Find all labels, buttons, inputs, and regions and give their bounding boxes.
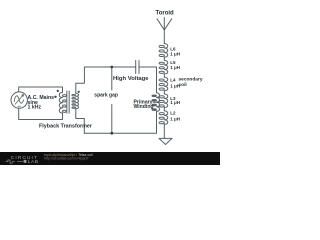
svg-text:spark gap: spark gap	[94, 93, 118, 99]
wire left-loop top	[19, 87, 63, 92]
wire L5-L4	[163, 74, 165, 77]
svg-text:High Voltage: High Voltage	[113, 76, 149, 82]
inductor L2 coil	[164, 111, 167, 125]
antenna / toroid symbol	[157, 18, 172, 31]
ground symbol	[159, 138, 172, 144]
svg-text:L2: L2	[170, 111, 176, 116]
watermark bar	[0, 152, 220, 165]
capacitor C1 left plate	[135, 61, 137, 74]
wire cap to right corner, down to primary	[139, 67, 157, 93]
CircuitLab logo block	[24, 160, 27, 163]
svg-text:1 μH: 1 μH	[170, 100, 180, 105]
wire L3-L2	[163, 108, 165, 111]
capacitor C1 right plate	[138, 61, 140, 74]
inductor L6 coil	[164, 44, 167, 58]
transformer T1 right winding	[76, 93, 79, 108]
transformer T1 core	[67, 91, 70, 114]
voltage source V1	[11, 92, 27, 108]
node junction dot bottom rail	[110, 132, 113, 135]
svg-text:Toroid: Toroid	[156, 11, 175, 17]
CircuitLab logo waveform	[5, 160, 23, 163]
svg-text:1 μH: 1 μH	[170, 116, 180, 121]
wire bottom rail	[84, 111, 156, 133]
primary winding L1 coil	[157, 93, 160, 111]
wire xfmr right-top staircase to HV line	[76, 67, 136, 93]
label pointer dot A.C. Mains	[54, 96, 56, 98]
label pointer primary winding	[153, 101, 159, 103]
spark gap lower electrode	[111, 105, 113, 134]
wire L4-L3	[163, 91, 165, 94]
wire antenna stem	[163, 30, 165, 44]
svg-text:1 μH: 1 μH	[170, 52, 180, 57]
node junction dot HV	[110, 66, 113, 69]
phase dot left winding	[57, 90, 59, 92]
wire L6-L5	[163, 57, 165, 60]
wire xfmr right-bottom staircase	[76, 109, 85, 134]
wire left-loop bottom	[19, 109, 63, 120]
transformer T1 left winding	[59, 92, 62, 113]
svg-text:Winding: Winding	[134, 104, 154, 110]
spark gap upper electrode	[111, 67, 113, 90]
svg-text:http://circuitlab.com/c/4pqx2f: http://circuitlab.com/c/4pqx2f	[44, 157, 88, 161]
svg-text:LAB: LAB	[28, 159, 39, 165]
svg-text:1 μH: 1 μH	[170, 65, 180, 70]
svg-text:L4: L4	[170, 78, 176, 83]
inductor L3 coil	[164, 94, 167, 108]
inductor L4 coil	[164, 77, 167, 91]
svg-text:1 μH: 1 μH	[170, 83, 180, 88]
wire L2 to ground	[163, 124, 165, 138]
svg-text:Flyback Transformer: Flyback Transformer	[39, 124, 93, 130]
svg-text:secondary: secondary	[179, 76, 203, 82]
svg-text:1 kHz: 1 kHz	[28, 105, 42, 111]
phase dot right winding	[78, 91, 80, 93]
inductor L5 coil	[164, 60, 167, 74]
